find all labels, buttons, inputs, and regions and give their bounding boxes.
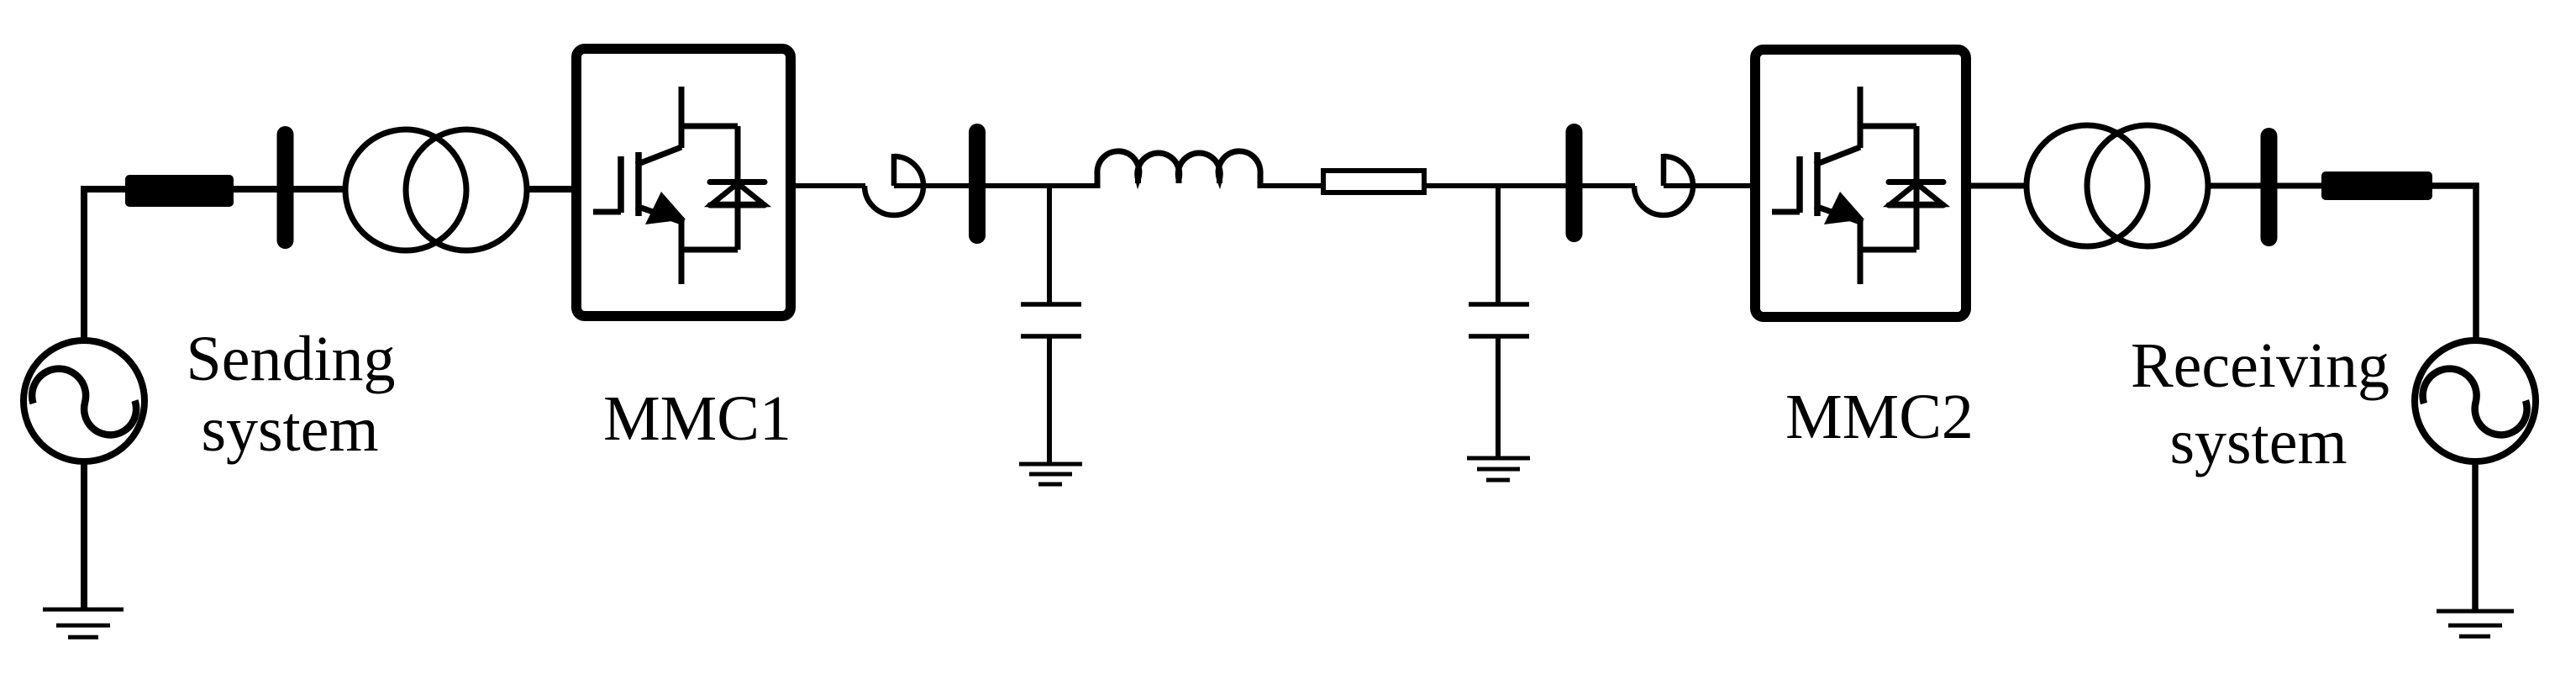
node B drop wire (1496, 186, 1501, 304)
capacitor C1 top plate (1021, 302, 1081, 307)
wire T2 to busbar B4 (2208, 183, 2321, 189)
sine wave inside G2 (2423, 369, 2527, 435)
svg-text:system: system (2169, 407, 2347, 477)
diode D1 anode bar (710, 203, 765, 208)
IGBT Q1 collector lead (679, 87, 685, 148)
busbar B1 (277, 135, 294, 240)
IGBT Q1 gate bar (618, 156, 624, 213)
busbar B4 (2261, 136, 2278, 238)
MMC2 converter box (1755, 50, 1966, 317)
wire G1 bottom to ground (81, 462, 87, 609)
wire MMC1 to reactor (791, 183, 865, 188)
smoothing reactor SR2 vertical (1661, 154, 1667, 186)
busbar B3 (1566, 132, 1583, 234)
wire inductor to DC line (1260, 183, 1323, 188)
wire SR2 to MMC2 (1664, 183, 1755, 188)
IGBT Q2 emitter arrow (1824, 192, 1864, 224)
wire junction A to inductor (1049, 183, 1100, 188)
wire G1 top to corner and to Z1 (84, 189, 125, 340)
transformer T2 circle a (2027, 125, 2148, 246)
IGBT Q2 emitter angled line (1815, 206, 1863, 223)
diode D2 triangle (1890, 183, 1943, 204)
IGBT Q2 body bar (1814, 152, 1821, 216)
svg-text:MMC1: MMC1 (603, 383, 791, 454)
IGBT Q2 collector lead (1858, 87, 1864, 148)
svg-text:Receiving: Receiving (2131, 330, 2389, 401)
IGBT Q1 gate lead (593, 209, 621, 215)
sine wave inside G1 (32, 369, 136, 435)
IGBT Q2 top branch (1858, 124, 1916, 129)
wire G2 bottom to ground (2472, 462, 2479, 611)
transformer T1 circle a (345, 129, 466, 251)
transformer T2 circle b (2087, 125, 2208, 246)
IGBT Q2 bottom branch (1858, 247, 1916, 253)
busbar B2 (969, 132, 986, 235)
inductor L1 coil (1097, 151, 1260, 188)
capacitor C2 bottom plate (1469, 334, 1529, 339)
ground GND4 (1467, 456, 1530, 461)
impedance Z2 (filled rect) (2321, 171, 2432, 200)
IGBT Q1 collector angled line (636, 147, 681, 165)
capacitor C1 bottom plate (1021, 334, 1081, 339)
IGBT Q2 diode branch vertical (1914, 126, 1920, 250)
wire C1 to ground (1047, 336, 1052, 464)
IGBT Q1 bottom branch (679, 247, 738, 253)
wire Z2 to corner and down to G2 (2432, 186, 2476, 340)
smoothing reactor SR1 arc (865, 156, 923, 215)
svg-text:system: system (201, 394, 378, 465)
wire MMC2 to T2 (1966, 183, 2027, 189)
node A drop wire (1047, 186, 1052, 304)
wire Z1 to busbar B1 (234, 186, 346, 193)
IGBT Q1 diode branch vertical (735, 126, 741, 250)
wire DC line to junction B (1427, 183, 1498, 188)
IGBT Q1 body bar (635, 152, 642, 216)
IGBT Q2 gate lead (1772, 209, 1800, 215)
smoothing reactor SR1 vertical (891, 154, 897, 186)
diode D1 cathode bar (710, 179, 765, 185)
AC source G2 (receiving) (2415, 340, 2536, 462)
transformer T1 circle b (406, 129, 527, 251)
AC source G1 (sending) (24, 340, 145, 462)
ground GND1 (43, 608, 124, 612)
diode D2 anode bar (1889, 203, 1943, 208)
IGBT Q1 emitter angled line (636, 206, 684, 223)
DC line model (rect) (1323, 171, 1424, 193)
diode D1 triangle (712, 183, 764, 204)
wire SR1 to junction A (894, 183, 1049, 188)
smoothing reactor SR2 arc (1634, 156, 1693, 215)
ground GND3 (1019, 462, 1082, 467)
MMC1 converter box (576, 49, 791, 316)
IGBT Q1 top branch (679, 124, 738, 129)
svg-text:MMC2: MMC2 (1785, 382, 1974, 452)
wire T1 to MMC1 (527, 186, 575, 193)
wire junction B to reactor SR2 (1498, 183, 1635, 188)
impedance Z1 (filled rect) (125, 175, 234, 207)
diode D2 cathode bar (1889, 179, 1943, 185)
svg-text:Sending: Sending (186, 324, 395, 394)
wire C2 to ground (1496, 336, 1501, 458)
IGBT Q2 emitter lead (1858, 222, 1864, 284)
IGBT Q1 emitter arrow (645, 192, 686, 224)
IGBT Q2 gate bar (1796, 156, 1803, 213)
capacitor C2 top plate (1469, 302, 1529, 307)
IGBT Q1 emitter lead (679, 222, 685, 284)
ground GND2 (2437, 609, 2514, 614)
IGBT Q2 collector angled line (1815, 147, 1860, 165)
